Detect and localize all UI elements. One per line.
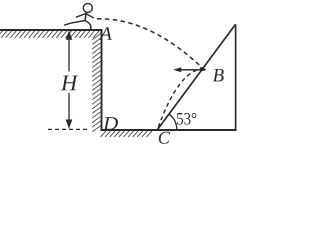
stick figure back arm [76,14,86,18]
cliff top hatching [0,31,99,38]
incline right vertical edge [235,24,237,130]
ground line [101,129,237,131]
H dimension up arrowhead [66,30,73,39]
ground hatching [101,131,153,137]
velocity arrowhead left tip [173,67,181,72]
cliff top surface line [0,29,102,31]
stick figure front arm [86,14,94,18]
label 53 degrees [177,113,196,125]
velocity arrow at B pointing left [179,69,205,71]
cliff vertical face line [101,29,103,130]
stick figure torso [85,12,86,20]
label A [99,27,112,40]
incline hypotenuse [157,24,235,130]
label B [213,69,224,81]
stick figure front leg [85,21,91,30]
label D [103,117,118,129]
H dimension down arrowhead [66,120,73,129]
label H [61,76,79,91]
dashed height baseline [48,128,90,130]
stick figure runner head [83,3,92,12]
H dimension line upper segment [68,37,70,72]
small arrowhead at B on incline [200,67,206,72]
angle arc at C [169,114,177,129]
stick figure back leg [64,21,85,26]
dashed rebound trajectory from B to C [157,68,204,130]
label C [159,132,170,144]
cliff face hatching [92,34,101,132]
dashed trajectory from A to B [97,19,205,70]
H dimension line lower segment [68,93,70,122]
